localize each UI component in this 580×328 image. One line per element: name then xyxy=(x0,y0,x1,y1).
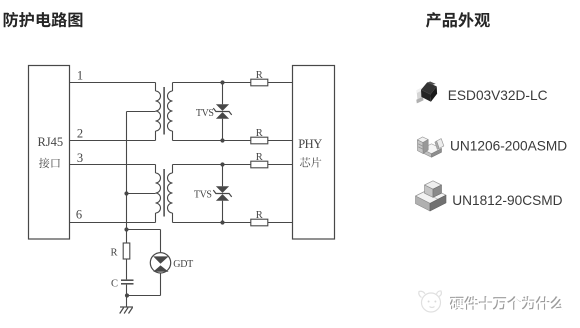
wire GDT bottom xyxy=(160,273,162,296)
svg-text:R: R xyxy=(256,210,263,221)
T1 center tap wire xyxy=(127,111,156,113)
resistor R vertical xyxy=(126,230,128,244)
svg-text:R: R xyxy=(256,152,263,163)
svg-text:C: C xyxy=(111,279,118,290)
transformer T1 xyxy=(156,83,173,141)
TVS diode 1 xyxy=(222,83,224,105)
resistor R (wire 1) xyxy=(251,79,268,86)
svg-text:GDT: GDT xyxy=(173,259,193,270)
svg-text:TVS: TVS xyxy=(194,190,212,201)
earth ground xyxy=(120,306,133,308)
svg-text:1: 1 xyxy=(77,69,83,83)
junction ground tee xyxy=(125,293,129,297)
wire T2 sec top to PHY xyxy=(173,164,251,166)
svg-text:PHY: PHY xyxy=(298,137,322,151)
wire pin1 RJ45 to T1 xyxy=(70,82,156,84)
product icon ESD03V32D-LC (black SMD diode) xyxy=(416,82,437,104)
vertical tap bus wire xyxy=(126,112,128,230)
接口 label xyxy=(39,158,60,168)
T2 center tap wire xyxy=(127,193,156,195)
wire T1 sec bottom to PHY xyxy=(173,140,251,142)
RJ45 connector box xyxy=(29,66,70,240)
transformer T2 core xyxy=(163,169,165,217)
svg-text:TVS: TVS xyxy=(196,108,214,119)
TVS diode 2 xyxy=(222,165,224,187)
transformer T1 core xyxy=(163,87,165,135)
wire pin3 RJ45 to T2 xyxy=(70,164,156,166)
svg-text:RJ45: RJ45 xyxy=(37,135,63,149)
芯片 label xyxy=(300,157,321,167)
resistor R (wire 2) xyxy=(251,137,268,144)
transformer T2 xyxy=(156,165,173,223)
svg-text:UN1812-90CSMD: UN1812-90CSMD xyxy=(452,193,562,208)
svg-text:ESD03V32D-LC: ESD03V32D-LC xyxy=(448,88,548,103)
PHY chip box xyxy=(293,66,335,240)
gas discharge tube GDT xyxy=(150,253,170,273)
junction tap T2 xyxy=(124,191,128,195)
resistor R (wire 3) xyxy=(251,161,268,168)
wire pin2 RJ45 to T1 xyxy=(70,140,156,142)
svg-text:R: R xyxy=(110,247,117,258)
wire C to ground xyxy=(126,285,128,307)
wire pin6 RJ45 to T2 xyxy=(70,222,156,224)
title: 防护电路图 xyxy=(4,12,83,27)
svg-text:R: R xyxy=(256,128,263,139)
svg-text:3: 3 xyxy=(77,151,83,165)
watermark logo xyxy=(419,291,442,312)
svg-text:6: 6 xyxy=(76,208,82,222)
resistor R (wire 4) xyxy=(251,219,268,226)
wire T2 sec bottom to PHY xyxy=(173,222,251,224)
wire tee to GDT top xyxy=(127,229,161,231)
title: 产品外观 xyxy=(426,12,490,27)
product icon UN1206-200ASMD (white SMD) xyxy=(417,137,444,157)
wire T1 sec top to PHY xyxy=(173,82,251,84)
junction GDT tee top xyxy=(124,227,128,231)
svg-text:UN1206-200ASMD: UN1206-200ASMD xyxy=(450,138,567,153)
product icon UN1812-90CSMD (white SMD with cube) xyxy=(416,181,447,211)
capacitor C xyxy=(126,259,128,279)
svg-text:2: 2 xyxy=(77,127,83,141)
svg-text:R: R xyxy=(256,70,263,81)
